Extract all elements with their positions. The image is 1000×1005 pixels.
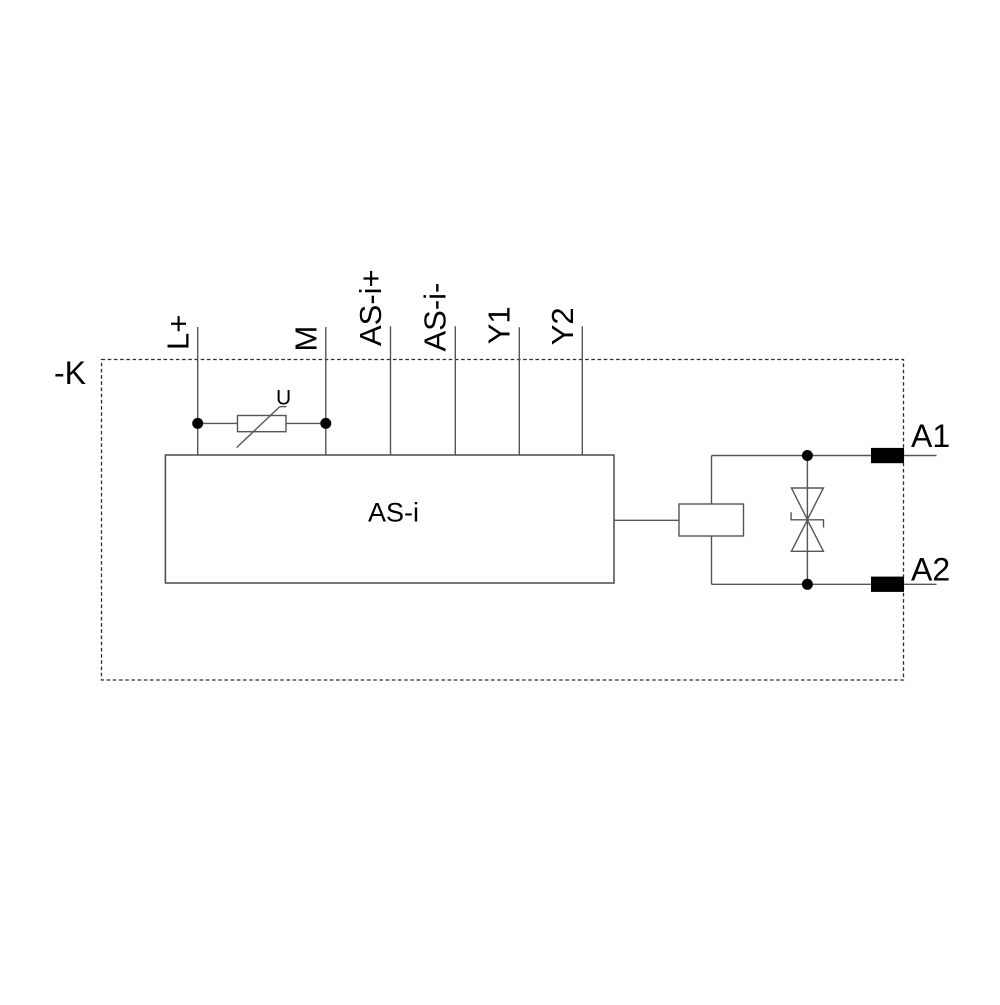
svg-text:M: M <box>288 326 323 352</box>
svg-text:AS-i+: AS-i+ <box>353 269 388 346</box>
svg-text:AS-i-: AS-i- <box>418 283 453 352</box>
svg-text:Y2: Y2 <box>545 307 580 345</box>
svg-text:AS-i: AS-i <box>368 497 419 527</box>
svg-text:U: U <box>276 386 291 409</box>
svg-text:A2: A2 <box>911 551 950 587</box>
svg-text:Y1: Y1 <box>482 306 517 344</box>
svg-text:L+: L+ <box>160 315 195 350</box>
svg-text:A1: A1 <box>911 418 950 454</box>
svg-text:-K: -K <box>54 355 86 391</box>
